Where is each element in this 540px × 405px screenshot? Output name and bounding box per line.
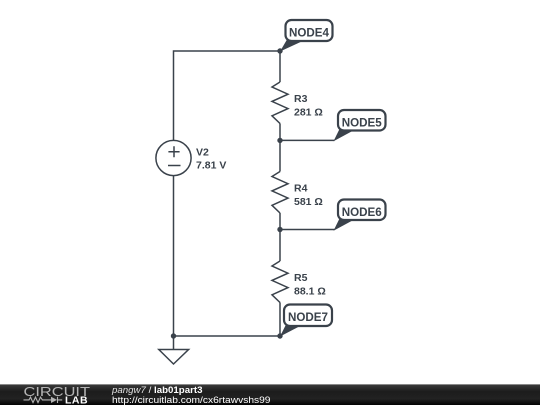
node flag NODE7 — [280, 305, 332, 337]
svg-text:7.81 V: 7.81 V — [196, 160, 226, 172]
svg-text:NODE4: NODE4 — [289, 26, 329, 40]
svg-text:LAB: LAB — [65, 395, 88, 405]
wire top: from V2 top-left corner to NODE4 junction — [174, 51, 281, 140]
svg-text:NODE7: NODE7 — [288, 310, 328, 324]
svg-text:R5: R5 — [294, 272, 308, 284]
logo diode triangle — [51, 397, 57, 403]
wire stub to NODE5 flag — [280, 139, 335, 141]
node B junction dot (NODE5) — [277, 138, 282, 143]
node flag NODE5 — [334, 110, 386, 141]
wire bottom rail — [174, 335, 281, 337]
V2 plus sign — [168, 146, 179, 157]
voltage source V2 circle — [156, 140, 191, 175]
wire R4 bottom to R5 top — [279, 213, 281, 261]
resistor R5 — [272, 261, 288, 303]
wire stub to NODE6 flag — [280, 229, 335, 231]
logo wire with resistor and diode — [24, 397, 63, 403]
node C junction dot (NODE6) — [277, 227, 282, 232]
V2 minus sign — [168, 165, 181, 167]
wire left: below V2 down to bottom rail — [173, 176, 175, 336]
wire right: NODE4 junction to R3 top — [279, 51, 281, 82]
svg-text:88.1 Ω: 88.1 Ω — [294, 286, 326, 298]
svg-text:R4: R4 — [294, 183, 308, 195]
svg-text:R3: R3 — [294, 93, 308, 105]
node D junction dot (NODE7) — [277, 333, 282, 338]
resistor R3 — [272, 82, 288, 124]
svg-text:581 Ω: 581 Ω — [294, 196, 323, 208]
resistor R4 — [272, 172, 288, 214]
wire R5 bottom to NODE7 junction — [279, 303, 281, 337]
svg-text:NODE6: NODE6 — [342, 205, 382, 219]
ground symbol — [159, 350, 189, 365]
wire R3 bottom to R4 top — [279, 124, 281, 172]
node flag NODE6 — [334, 200, 386, 231]
node A junction dot (NODE4) — [277, 48, 282, 53]
ground stub wire — [173, 336, 175, 350]
node flag NODE4 — [280, 20, 333, 52]
svg-text:http://circuitlab.com/cx6rtawv: http://circuitlab.com/cx6rtawvshs99 — [112, 395, 271, 405]
footer bar — [0, 384, 540, 405]
svg-text:V2: V2 — [196, 147, 209, 159]
svg-text:281 Ω: 281 Ω — [294, 107, 323, 119]
svg-text:NODE5: NODE5 — [342, 115, 382, 129]
node E junction dot (ground rail) — [171, 333, 176, 338]
